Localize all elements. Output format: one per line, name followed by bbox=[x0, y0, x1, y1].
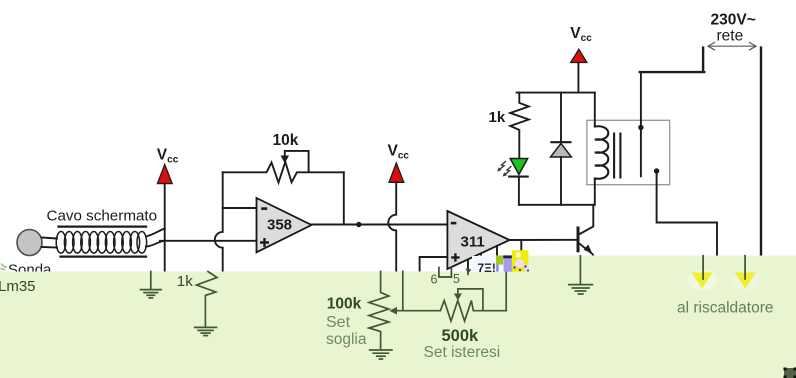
heater arrow glow bbox=[687, 269, 759, 291]
cable shield top line bbox=[59, 225, 147, 227]
heater arrow left bbox=[692, 273, 713, 289]
wire: Vcc1 down to green boundary bbox=[164, 184, 166, 272]
311 pin stubs bbox=[468, 240, 521, 272]
wire: emitter to ground bbox=[579, 256, 581, 285]
wire: feedback down to output bbox=[343, 172, 345, 224]
mains right wire 230V bbox=[760, 48, 762, 256]
358 plus sign bbox=[260, 238, 269, 247]
wire: 358 inverting input stub bbox=[223, 207, 257, 209]
transistor Q1 bbox=[578, 205, 593, 256]
svg-text:soglia: soglia bbox=[326, 331, 367, 348]
svg-text:rete: rete bbox=[717, 27, 744, 44]
10k potentiometer R2 bbox=[223, 162, 344, 183]
pin stub below 311 bbox=[467, 272, 469, 275]
svg-text:5: 5 bbox=[453, 272, 460, 286]
1k resistor R3 bbox=[510, 93, 529, 159]
Vcc rail top right bbox=[517, 92, 595, 94]
diode D2 bbox=[551, 93, 572, 205]
wire: 311 output to transistor base bbox=[510, 239, 579, 241]
comparator U2 311 bbox=[447, 211, 509, 269]
ghost squiggle (shifted Sonda remnant) bbox=[1, 264, 8, 270]
100k wiper arrow bbox=[394, 272, 403, 311]
500k potentiometer bbox=[403, 301, 506, 322]
relay contact pole bbox=[640, 72, 642, 176]
ground (1k) bbox=[195, 327, 217, 335]
500k wiper and box bbox=[458, 289, 483, 311]
mains left wire 230V bbox=[640, 48, 704, 73]
ground (probe shield) bbox=[141, 272, 161, 298]
ground (100k) bbox=[370, 350, 392, 359]
node junction dot bbox=[356, 222, 361, 227]
garbled pixel block bbox=[466, 250, 530, 274]
green selection overlay bbox=[0, 256, 796, 378]
Vcc arrow 2 bbox=[389, 163, 404, 182]
svg-text:Lm35: Lm35 bbox=[0, 278, 36, 295]
311 minus sign bbox=[451, 222, 457, 225]
svg-text:500k: 500k bbox=[442, 327, 480, 345]
svg-text:358: 358 bbox=[267, 217, 292, 234]
wire: Vcc2 down with hop over output wire bbox=[388, 182, 396, 271]
svg-text:Set isteresi: Set isteresi bbox=[424, 344, 501, 361]
wire: Vcc3 to rail bbox=[577, 63, 579, 93]
wire: heater left lead bbox=[702, 256, 704, 279]
svg-text:230V~: 230V~ bbox=[711, 11, 756, 28]
ground (transistor) bbox=[569, 285, 593, 294]
dimension arrow 230V bbox=[708, 43, 756, 50]
resistor 1k zigzag bbox=[197, 272, 218, 326]
svg-text:10k: 10k bbox=[273, 132, 299, 149]
relay core lines bbox=[614, 134, 620, 178]
wire: relay throw to heater bbox=[657, 171, 717, 256]
cable coil (Cavo schermato) bbox=[56, 232, 146, 254]
wire: signal to 358 + input bbox=[160, 240, 257, 242]
relay throw contact bbox=[654, 168, 659, 173]
relay coil bbox=[594, 93, 596, 127]
heater arrow right bbox=[735, 273, 756, 289]
358 minus sign bbox=[261, 207, 267, 210]
sensor probe Sonda Lm35 bbox=[17, 230, 42, 256]
Vcc arrow 3 bbox=[571, 49, 587, 62]
svg-text:100k: 100k bbox=[327, 296, 362, 313]
wire: 358 output to 311 bbox=[312, 224, 448, 226]
svg-text:Set: Set bbox=[326, 314, 351, 331]
svg-text:311: 311 bbox=[461, 233, 485, 250]
wire: 311 plus input elbow bbox=[420, 257, 448, 272]
svg-text:6: 6 bbox=[431, 273, 438, 287]
svg-text:1k: 1k bbox=[177, 273, 193, 290]
311 plus sign bbox=[451, 253, 459, 261]
100k potentiometer bbox=[369, 272, 389, 349]
wire: inverting branch with hop over signal bbox=[215, 172, 223, 271]
svg-text:1k: 1k bbox=[489, 109, 506, 126]
pin 6-5 bracket bbox=[439, 268, 452, 278]
wire: collector node bottom bbox=[519, 204, 593, 206]
LED emission arrows bbox=[497, 162, 511, 177]
wire: LED cathode down bbox=[518, 178, 520, 205]
wire: 500k right lead up bbox=[505, 272, 507, 311]
op-amp U1 358 bbox=[257, 198, 312, 252]
probe lead wires bbox=[42, 238, 58, 248]
selection handle bottom right bbox=[784, 368, 796, 378]
svg-text:7Ξ!: 7Ξ! bbox=[478, 261, 496, 275]
text labels top region bbox=[8, 11, 756, 278]
svg-text:Cavo schermato: Cavo schermato bbox=[47, 208, 158, 225]
relay K1 box bbox=[587, 120, 670, 184]
svg-text:al riscaldatore: al riscaldatore bbox=[677, 299, 774, 316]
10k wiper and box bbox=[285, 151, 309, 172]
wire: heater right lead bbox=[744, 256, 746, 279]
cable end wires to circuit bbox=[146, 229, 165, 247]
cable shield bottom line bbox=[61, 255, 147, 257]
LED D1 green bbox=[509, 159, 528, 177]
Vcc arrow 1 bbox=[157, 165, 172, 184]
